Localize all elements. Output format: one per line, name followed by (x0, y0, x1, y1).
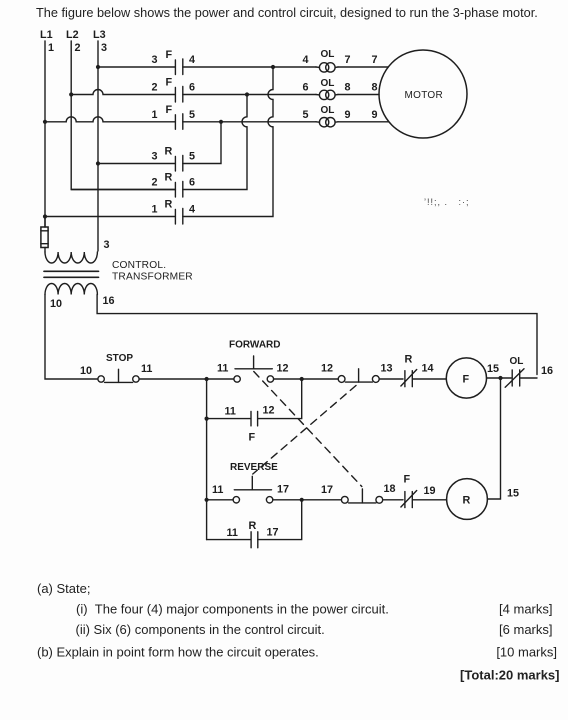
node L3 (93, 29, 107, 54)
svg-text:8: 8 (372, 82, 378, 94)
interlock dashed contact to reverse-button (253, 386, 356, 475)
node 11 before reverse (212, 484, 223, 496)
junction F coil output (498, 376, 502, 380)
svg-text:5: 5 (189, 151, 195, 163)
node 10 label (50, 298, 62, 310)
svg-text:R: R (249, 520, 257, 532)
junction forward branch (300, 377, 304, 381)
svg-text:16: 16 (541, 365, 553, 377)
svg-text:18: 18 (384, 483, 396, 495)
contact NO 17-18 (341, 489, 382, 503)
wire F coil to OL (487, 377, 512, 379)
wire L1 rail (44, 41, 46, 227)
svg-text:11: 11 (217, 363, 228, 375)
svg-text:L2: L2 (66, 29, 79, 41)
svg-text:3: 3 (152, 54, 158, 66)
wire row F1 left with hops over L2 and L3 (45, 117, 175, 122)
node 16 label (103, 295, 115, 307)
contact F 1-5 (152, 104, 196, 130)
svg-text:R: R (463, 495, 471, 507)
junction reverse branch (300, 498, 304, 502)
wire contact to R NC (379, 378, 403, 380)
pushbutton STOP (98, 353, 139, 382)
svg-text:OL: OL (321, 49, 335, 60)
contact NC F 18-19 (401, 474, 417, 508)
transformer T1 primary (45, 252, 97, 263)
svg-text:12: 12 (321, 363, 333, 375)
wire row F2 left with hop over L3 (71, 90, 175, 95)
svg-text:OL: OL (321, 78, 335, 89)
wire reverse to contact (273, 499, 342, 501)
wire to F coil (413, 378, 446, 380)
junction R hold left none corner (207, 500, 302, 540)
svg-text:5: 5 (189, 109, 195, 121)
node 17 before aux (321, 484, 333, 496)
svg-text:3: 3 (104, 239, 110, 251)
contact R 3-5 (152, 146, 196, 172)
junction F2 output (245, 92, 249, 96)
contact R 1-4 (152, 199, 196, 225)
svg-text:13: 13 (381, 363, 393, 375)
svg-text:R: R (405, 354, 413, 366)
svg-text:19: 19 (424, 485, 436, 497)
scan smudge artifact (424, 197, 470, 207)
wire to F NC (383, 499, 403, 501)
svg-text:17: 17 (267, 527, 279, 539)
svg-text:(b) Explain in point form how: (b) Explain in point form how the circui… (37, 645, 319, 660)
svg-text:11: 11 (141, 363, 152, 375)
svg-text:[6 marks]: [6 marks] (499, 622, 552, 637)
svg-text:4: 4 (189, 54, 195, 66)
question text a (37, 581, 90, 596)
svg-text:L1: L1 (40, 29, 53, 41)
contact R holding 11-17 (227, 520, 279, 548)
svg-text:12: 12 (277, 363, 289, 375)
svg-text:11: 11 (227, 527, 238, 539)
wire OL2 to motor (338, 94, 379, 96)
svg-text:10: 10 (80, 365, 92, 377)
svg-text:FORWARD: FORWARD (229, 340, 280, 351)
node 18 (384, 483, 396, 495)
wire row R2 left (71, 189, 175, 191)
node 11 after stop (141, 363, 152, 375)
node 3 label (104, 239, 110, 251)
contact NC R 13-14 (401, 354, 417, 387)
node 16 right (541, 365, 553, 377)
wire row R2 right up to F2 with hop over F1 (183, 95, 247, 190)
svg-text:R: R (165, 146, 173, 158)
question text a ii (76, 622, 553, 637)
pushbutton FORWARD (229, 340, 280, 383)
junction L3-R3 (96, 161, 100, 165)
svg-text:5: 5 (303, 109, 309, 121)
wire R coil to rail (487, 378, 500, 499)
node 12 after forward (277, 363, 289, 375)
junction L2-F2 (69, 92, 73, 96)
junction F1 output (219, 120, 223, 124)
svg-text:6: 6 (189, 177, 195, 189)
svg-text:TRANSFORMER: TRANSFORMER (112, 272, 193, 283)
transformer T1 core (44, 271, 99, 277)
svg-text:9: 9 (372, 109, 378, 121)
transformer label (112, 260, 193, 283)
coil R (447, 479, 488, 520)
svg-text:4: 4 (189, 204, 195, 216)
wire row R1 right up to F3 with hops over F2 F1 (183, 67, 273, 217)
question text total (460, 668, 559, 683)
svg-text:L3: L3 (93, 29, 106, 41)
contact NC OL (505, 356, 524, 387)
svg-text:The figure below shows the pow: The figure below shows the power and con… (36, 5, 538, 20)
junction main left branch (205, 377, 209, 381)
svg-text:1: 1 (152, 109, 158, 121)
contact R 2-6 (152, 172, 196, 198)
junction F hold left (205, 417, 209, 421)
svg-text:[4 marks]: [4 marks] (499, 602, 552, 617)
pushbutton REVERSE (230, 462, 278, 503)
svg-text:2: 2 (152, 177, 158, 189)
svg-text:MOTOR: MOTOR (405, 90, 444, 101)
svg-text:8: 8 (345, 82, 351, 94)
fuse F1 power (41, 217, 48, 252)
junction F3 output (271, 65, 275, 69)
svg-text:10: 10 (50, 298, 62, 310)
svg-text:F: F (463, 374, 470, 386)
wire stop to node (139, 378, 234, 380)
node 11 before forward (217, 363, 228, 375)
svg-text:7: 7 (372, 54, 378, 66)
wire secondary left rail down (45, 295, 98, 380)
wire row F2 right (183, 94, 316, 96)
node 17 after reverse (277, 484, 289, 496)
contact F holding 11-12 (225, 405, 275, 444)
wire L3 rail (97, 41, 99, 251)
svg-text:OL: OL (510, 356, 524, 367)
node 15 (487, 363, 499, 375)
motor M (379, 50, 467, 138)
wire row F1 right (183, 121, 316, 123)
node 12 before aux contact (321, 363, 333, 375)
svg-text:4: 4 (303, 54, 309, 66)
svg-text:[10 marks]: [10 marks] (496, 645, 557, 660)
svg-text:CONTROL.: CONTROL. (112, 260, 166, 271)
wire row R3 right up to F1 (183, 122, 221, 164)
node 13 (381, 363, 393, 375)
wire L2 rail (71, 41, 175, 190)
wire OL1 to motor (338, 66, 388, 68)
svg-text:15: 15 (507, 488, 519, 500)
svg-text:REVERSE: REVERSE (230, 462, 278, 473)
svg-text:14: 14 (422, 363, 434, 375)
node 10 at stop (80, 365, 92, 377)
svg-text:11: 11 (212, 484, 223, 496)
coil F (446, 358, 486, 398)
wire OL3 to motor (338, 121, 388, 123)
svg-text:F: F (249, 432, 256, 444)
svg-text:F: F (166, 104, 173, 116)
node 15 right (507, 488, 519, 500)
svg-text:(ii) Six (6) components in the: (ii) Six (6) components in the control c… (76, 622, 325, 637)
wire F hold row (207, 379, 302, 419)
question text a i (76, 602, 553, 617)
svg-text:2: 2 (75, 42, 81, 54)
svg-text:12: 12 (263, 405, 275, 417)
svg-text:1: 1 (48, 42, 54, 54)
svg-text:F: F (166, 49, 173, 61)
svg-text:(a) State;: (a) State; (37, 581, 90, 596)
svg-text:2: 2 (152, 82, 158, 94)
node L1 (40, 29, 54, 54)
svg-text:15: 15 (487, 363, 499, 375)
overload heater OL3 (303, 105, 378, 127)
svg-text:3: 3 (101, 42, 107, 54)
svg-text:17: 17 (321, 484, 333, 496)
node 19 (424, 485, 436, 497)
wire row R3 left (98, 163, 175, 165)
svg-text:6: 6 (189, 82, 195, 94)
contact F 2-6 (152, 77, 196, 103)
svg-text:[Total:20 marks]: [Total:20 marks] (460, 668, 559, 683)
node 14 (422, 363, 434, 375)
wire secondary right to right rail (97, 295, 537, 375)
svg-text:F: F (166, 77, 173, 89)
interlock dashed forward to reverse-contact (254, 372, 362, 487)
svg-text:9: 9 (345, 109, 351, 121)
svg-text:R: R (165, 172, 173, 184)
svg-text:11: 11 (225, 406, 236, 418)
contact NO 12-13 (338, 369, 379, 383)
wire forward to contact (274, 378, 339, 380)
title text (36, 5, 538, 20)
wire row F3 right (183, 66, 316, 68)
junction L3-F3 (96, 65, 100, 69)
overload heater OL1 (303, 49, 378, 72)
junction reverse branch left (205, 498, 209, 502)
overload heater OL2 (303, 78, 378, 100)
svg-text:R: R (165, 199, 173, 211)
svg-text:OL: OL (321, 105, 335, 116)
junction L1-F1 (43, 120, 47, 124)
svg-text:(i) The four (4) major compon: (i) The four (4) major components in the… (76, 602, 389, 617)
wire row F3 left (98, 66, 175, 68)
node L2 (66, 29, 81, 54)
svg-text:7: 7 (345, 54, 351, 66)
svg-text:1: 1 (152, 204, 158, 216)
svg-text:6: 6 (303, 82, 309, 94)
wire reverse rung left (207, 499, 234, 501)
question text b (37, 645, 557, 660)
svg-text:STOP: STOP (106, 353, 133, 364)
svg-text:’!!;, . :·;: ’!!;, . :·; (424, 197, 470, 207)
transformer T1 secondary (45, 284, 97, 295)
svg-text:17: 17 (277, 484, 289, 496)
svg-text:F: F (404, 474, 411, 486)
contact F 3-4 (152, 49, 196, 75)
junction L1-R1 (43, 214, 47, 218)
svg-text:16: 16 (103, 295, 115, 307)
wire row R1 left (45, 216, 175, 218)
wire OL to right rail (521, 377, 538, 379)
wire branch left vertical (206, 379, 208, 540)
wire to R coil (413, 499, 447, 501)
svg-text:3: 3 (152, 151, 158, 163)
